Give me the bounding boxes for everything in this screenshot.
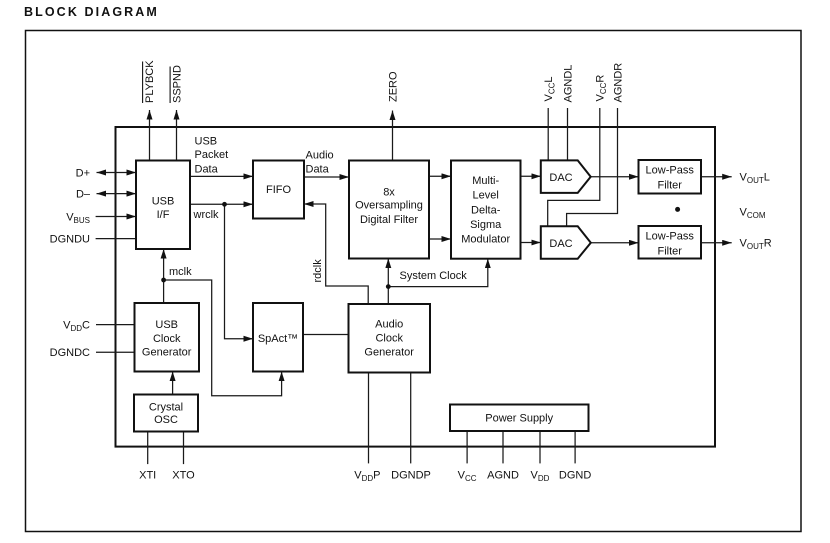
wire Crystal OSC to USB Clock Generator bbox=[172, 372, 174, 395]
svg-text:BLOCK DIAGRAM: BLOCK DIAGRAM bbox=[24, 5, 159, 19]
wire ZERO bbox=[387, 71, 399, 161]
wire filter to modulator bottom bbox=[429, 238, 451, 240]
svg-text:DGNDP: DGNDP bbox=[391, 469, 431, 481]
svg-text:DGNDU: DGNDU bbox=[50, 234, 90, 246]
svg-text:Audio: Audio bbox=[306, 149, 334, 161]
svg-text:USB: USB bbox=[152, 196, 175, 208]
svg-text:Multi-: Multi- bbox=[472, 175, 499, 187]
svg-text:Modulator: Modulator bbox=[461, 234, 510, 246]
wire XTO bbox=[172, 432, 195, 482]
wire modulator to DAC2 bbox=[521, 242, 541, 244]
svg-text:AGNDL: AGNDL bbox=[562, 65, 574, 103]
block SpAct bbox=[253, 303, 303, 372]
wire PLYBCK bbox=[143, 60, 156, 161]
block Low-Pass Filter (left) bbox=[639, 160, 702, 194]
block Multi-Level Delta-Sigma Modulator bbox=[451, 161, 521, 259]
wire SpAct to Audio Clock Generator bbox=[303, 334, 349, 336]
wire D+ bbox=[76, 167, 136, 179]
block Audio Clock Generator bbox=[349, 304, 431, 373]
DAC U1 (left channel) bbox=[541, 160, 591, 193]
svg-text:Low-Pass: Low-Pass bbox=[646, 230, 695, 242]
svg-text:PLYBCK: PLYBCK bbox=[144, 60, 156, 103]
svg-text:XTO: XTO bbox=[172, 469, 195, 481]
svg-text:FIFO: FIFO bbox=[266, 184, 291, 196]
svg-text:VCCL: VCCL bbox=[543, 76, 557, 101]
svg-text:USB: USB bbox=[155, 319, 178, 331]
wire mclk bbox=[161, 249, 281, 396]
wire VDD bbox=[531, 431, 550, 483]
svg-text:Level: Level bbox=[473, 190, 499, 202]
svg-text:AGNDR: AGNDR bbox=[612, 63, 624, 103]
svg-text:ZERO: ZERO bbox=[387, 71, 399, 102]
DAC U2 (right channel) bbox=[541, 226, 591, 258]
wire VOUTR bbox=[701, 238, 772, 252]
svg-text:SSPND: SSPND bbox=[171, 65, 183, 103]
svg-text:Generator: Generator bbox=[364, 346, 414, 358]
svg-text:AGND: AGND bbox=[487, 469, 519, 481]
svg-text:System Clock: System Clock bbox=[400, 270, 468, 282]
wire VCC bbox=[458, 431, 477, 483]
wire DGNDU bbox=[50, 234, 136, 246]
svg-text:DGND: DGND bbox=[559, 469, 591, 481]
svg-text:Clock: Clock bbox=[153, 333, 181, 345]
svg-text:DAC: DAC bbox=[549, 238, 572, 250]
wire D- bbox=[76, 189, 136, 201]
svg-text:Packet: Packet bbox=[195, 149, 229, 161]
svg-text:DAC: DAC bbox=[549, 172, 572, 184]
svg-text:Power Supply: Power Supply bbox=[485, 413, 553, 425]
wire SSPND bbox=[170, 65, 183, 160]
wire VCCR bbox=[548, 75, 609, 227]
wire VDDC bbox=[63, 320, 134, 334]
svg-text:VCC: VCC bbox=[458, 469, 477, 483]
svg-text:VBUS: VBUS bbox=[66, 211, 90, 225]
wire VCCL bbox=[543, 76, 557, 160]
svg-text:8x: 8x bbox=[383, 186, 395, 198]
svg-text:VDDC: VDDC bbox=[63, 320, 90, 334]
wire USB Packet Data bbox=[190, 135, 253, 176]
svg-text:wrclk: wrclk bbox=[193, 209, 220, 221]
svg-text:VOUTL: VOUTL bbox=[740, 172, 770, 186]
block Crystal OSC bbox=[134, 395, 198, 432]
wire AGNDR bbox=[567, 63, 625, 227]
chip boundary bbox=[116, 127, 716, 447]
svg-text:OSC: OSC bbox=[154, 414, 178, 426]
wire VOUTL bbox=[701, 172, 770, 186]
wire AGND bbox=[487, 431, 519, 481]
svg-text:D–: D– bbox=[76, 189, 91, 201]
block USB Clock Generator bbox=[135, 303, 200, 372]
block Low-Pass Filter (right) bbox=[639, 226, 702, 259]
svg-text:I/F: I/F bbox=[157, 209, 170, 221]
svg-text:VCCR: VCCR bbox=[595, 75, 609, 102]
svg-text:VCOM: VCOM bbox=[740, 206, 766, 220]
svg-text:VDDP: VDDP bbox=[354, 469, 380, 483]
svg-text:USB: USB bbox=[195, 135, 218, 147]
svg-text:VOUTR: VOUTR bbox=[740, 238, 772, 252]
block 8x Oversampling Digital Filter bbox=[349, 161, 429, 259]
wire DAC2 to LPF2 bbox=[591, 242, 639, 244]
wire rdclk bbox=[304, 204, 368, 304]
svg-text:XTI: XTI bbox=[139, 469, 156, 481]
svg-text:SpAct™: SpAct™ bbox=[258, 333, 298, 345]
node VCOM dot bbox=[675, 206, 766, 220]
block Power Supply bbox=[450, 405, 589, 432]
wire modulator to DAC1 bbox=[521, 175, 541, 177]
wire DGND bbox=[559, 431, 591, 481]
svg-text:Delta-: Delta- bbox=[471, 204, 501, 216]
wire wrclk bbox=[190, 202, 253, 339]
svg-text:Filter: Filter bbox=[657, 246, 682, 258]
wire filter to modulator top bbox=[429, 175, 451, 177]
svg-text:DGNDC: DGNDC bbox=[50, 347, 90, 359]
wire System Clock bbox=[386, 259, 488, 305]
svg-text:Oversampling: Oversampling bbox=[355, 200, 423, 212]
svg-text:Data: Data bbox=[195, 163, 219, 175]
svg-text:Digital Filter: Digital Filter bbox=[360, 214, 418, 226]
svg-text:Low-Pass: Low-Pass bbox=[646, 164, 695, 176]
block FIFO bbox=[253, 161, 304, 219]
wire VDDP bbox=[354, 373, 380, 483]
wire XTI bbox=[139, 432, 156, 482]
wire AGNDL bbox=[562, 65, 574, 161]
svg-text:Clock: Clock bbox=[375, 333, 403, 345]
svg-text:mclk: mclk bbox=[169, 266, 192, 278]
svg-text:Audio: Audio bbox=[375, 319, 403, 331]
svg-text:Sigma: Sigma bbox=[470, 219, 502, 231]
wire DAC1 to LPF1 bbox=[591, 176, 639, 178]
block USB I/F bbox=[136, 161, 190, 250]
svg-text:VDD: VDD bbox=[531, 469, 550, 483]
wire Audio Data bbox=[304, 149, 349, 177]
svg-text:Data: Data bbox=[306, 164, 330, 176]
svg-text:Filter: Filter bbox=[657, 180, 682, 192]
wire DGNDP bbox=[391, 373, 431, 482]
svg-text:Crystal: Crystal bbox=[149, 401, 183, 413]
wire VBUS bbox=[66, 211, 136, 225]
svg-text:Generator: Generator bbox=[142, 347, 192, 359]
svg-text:rdclk: rdclk bbox=[312, 259, 324, 283]
svg-text:D+: D+ bbox=[76, 167, 90, 179]
wire DGNDC bbox=[50, 347, 135, 359]
